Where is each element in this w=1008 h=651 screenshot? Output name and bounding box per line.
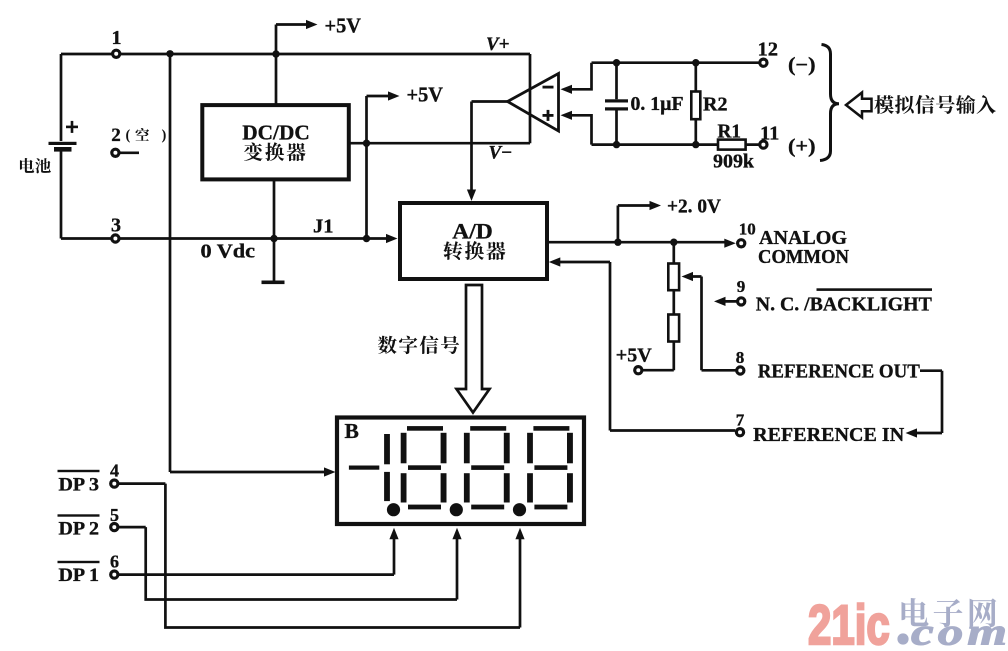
svg-text:REFERENCE IN: REFERENCE IN xyxy=(753,424,905,446)
svg-text:R2: R2 xyxy=(703,94,727,116)
svg-text:com: com xyxy=(911,612,1008,647)
svg-text:R1: R1 xyxy=(718,121,742,143)
svg-text:0 Vdc: 0 Vdc xyxy=(201,241,256,263)
svg-text:DP 3: DP 3 xyxy=(59,475,100,496)
svg-text:A/D: A/D xyxy=(452,219,493,244)
svg-text:): ) xyxy=(162,128,167,144)
svg-text:10: 10 xyxy=(739,220,756,239)
svg-text:DP 2: DP 2 xyxy=(59,519,100,540)
svg-text:+2. 0V: +2. 0V xyxy=(667,196,721,218)
svg-text:+5V: +5V xyxy=(407,83,444,107)
svg-text:V−: V− xyxy=(489,143,513,164)
svg-text:5: 5 xyxy=(110,505,119,525)
svg-text:(−): (−) xyxy=(788,55,816,76)
svg-text:DC/DC: DC/DC xyxy=(242,121,310,145)
svg-text:0. 1µF: 0. 1µF xyxy=(631,94,684,115)
svg-text:8: 8 xyxy=(736,348,745,367)
svg-text:(+): (+) xyxy=(788,137,816,158)
svg-text:21ic: 21ic xyxy=(808,594,890,646)
svg-text:1: 1 xyxy=(112,27,122,49)
svg-text:+5V: +5V xyxy=(325,14,362,38)
svg-text:(: ( xyxy=(126,128,131,144)
svg-text:J1: J1 xyxy=(313,216,334,238)
svg-text:B: B xyxy=(345,419,359,443)
svg-text:COMMON: COMMON xyxy=(758,246,850,268)
svg-text:11: 11 xyxy=(760,123,779,145)
svg-text:909k: 909k xyxy=(713,151,755,173)
svg-text:N. C. /BACKLIGHT: N. C. /BACKLIGHT xyxy=(756,294,933,316)
svg-text:7: 7 xyxy=(736,411,745,430)
svg-text:V+: V+ xyxy=(486,34,510,55)
svg-text:6: 6 xyxy=(110,552,119,572)
svg-text:REFERENCE OUT: REFERENCE OUT xyxy=(758,361,921,383)
svg-text:+5V: +5V xyxy=(616,346,652,367)
svg-text:3: 3 xyxy=(111,215,121,237)
svg-text:4: 4 xyxy=(110,461,119,481)
svg-text:9: 9 xyxy=(737,277,746,296)
svg-text:2: 2 xyxy=(111,125,121,146)
svg-text:DP 1: DP 1 xyxy=(59,565,100,586)
svg-text:12: 12 xyxy=(758,39,779,61)
